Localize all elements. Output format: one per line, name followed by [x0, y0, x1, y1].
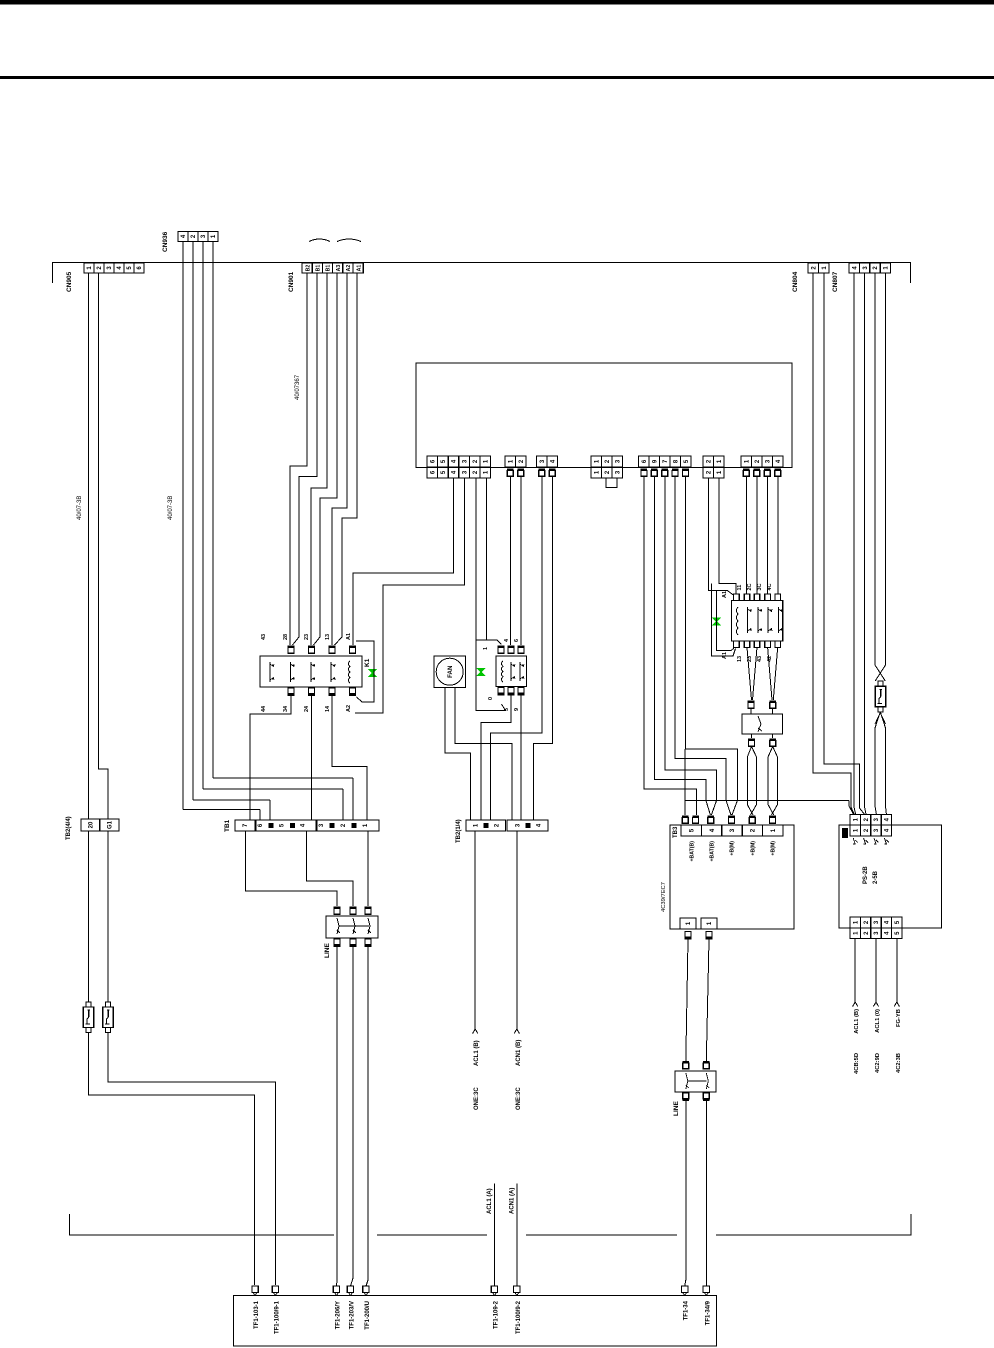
K3 pair converge 2 — [768, 647, 778, 700]
wire LINE-L1 to TF1-206 — [336, 947, 339, 1286]
TB2(1/4) link mark B — [526, 823, 531, 828]
TB3 top cell 2 — [742, 825, 762, 836]
connector CN905 pin 1 — [84, 263, 94, 273]
connector CN905 pin 3 — [104, 263, 114, 273]
svg-text:A1: A1 — [356, 265, 362, 272]
svg-text:13: 13 — [325, 634, 331, 640]
K1 bottom pin connector x352.5 — [349, 688, 356, 696]
TB2(1/4) box A — [466, 820, 506, 831]
wire split to TB3 pin 5a — [684, 749, 686, 815]
board CN5 pin 5 — [681, 456, 692, 467]
TB1 link mark b — [330, 823, 335, 828]
board CN4 upper pin 1 — [591, 456, 602, 467]
fuse F1 body — [875, 686, 885, 707]
top bus left bracket — [52, 262, 54, 283]
svg-text:TF1-103-1: TF1-103-1 — [254, 1300, 260, 1329]
PS top outer pin 4 — [881, 815, 891, 826]
PS bottom outer pin 1 — [850, 928, 860, 939]
svg-text:1: 1 — [853, 920, 859, 924]
K2 top pin connector x511 — [508, 646, 515, 654]
board CN1 upper pin 2 — [469, 456, 480, 467]
crimp board CN7-3 — [764, 469, 771, 477]
board CN2 pin 2 — [516, 456, 527, 467]
svg-text:ACN1 (A): ACN1 (A) — [510, 1188, 516, 1214]
svg-text:24: 24 — [304, 705, 310, 712]
board CN6 lower pin 1 — [714, 467, 725, 478]
main control board — [416, 363, 792, 468]
top bus right bracket — [910, 262, 912, 283]
LINE-R link bar — [688, 1080, 707, 1082]
svg-text:7: 7 — [663, 459, 669, 463]
svg-text:3C: 3C — [757, 583, 763, 590]
relay K3 body — [731, 601, 782, 641]
svg-text:4C2:9D: 4C2:9D — [875, 1053, 881, 1073]
wire board CN1-1 to K2 — [476, 478, 502, 645]
wire board CN5-3 staircase — [665, 477, 717, 816]
connector CN807 pin 1 — [880, 263, 890, 273]
svg-text:3: 3 — [863, 266, 869, 270]
crimp board CN5-2 — [651, 469, 658, 477]
PS corner mark — [842, 828, 848, 838]
wire TB2(1/4)-3 to ACN1(B) — [516, 831, 518, 1029]
crimp LINE-L bottom x353 — [350, 939, 357, 947]
bottom box pin TF1-100/9-2 — [514, 1286, 520, 1293]
svg-text:1: 1 — [483, 647, 489, 650]
wire TB2(4/4)-20 to fuse — [88, 831, 90, 1002]
TB2(4/4) cell 20 — [81, 819, 100, 831]
wire board CN7-2 to K3 — [756, 477, 758, 595]
crimp LINE-R bottom 2 — [703, 1093, 710, 1101]
K3 bottom pin x767.6 — [765, 641, 771, 648]
svg-text:3: 3 — [540, 459, 546, 463]
wire CN901-A1 to K1 — [342, 273, 357, 637]
K3 top pin x757 — [754, 594, 760, 601]
wire TB2(1/4)-1 to ACL1(B) — [474, 831, 476, 1029]
connector CN807 pin 3 — [859, 263, 869, 273]
wire CN905-1 to TB2(4/4) — [88, 273, 90, 819]
svg-text:2: 2 — [473, 470, 479, 474]
LINE filter right box — [675, 1071, 716, 1092]
crimp board CN5-4 — [672, 469, 679, 477]
svg-text:4: 4 — [117, 266, 123, 270]
crimp board CN7-4 — [775, 469, 782, 477]
svg-text:2-5B: 2-5B — [873, 870, 879, 884]
wire K1-24 to TB1 — [332, 696, 367, 820]
fuse F1 diverge X — [875, 712, 886, 728]
board CN4 upper pin 3 — [612, 456, 623, 467]
svg-text:1: 1 — [484, 459, 490, 463]
crimp LINE-L bottom x337 — [334, 939, 341, 947]
bottom box pin TF1-103-1 — [252, 1286, 258, 1293]
board CN4 upper pin 2 — [602, 456, 613, 467]
K1 top pin connector x352.5 — [349, 646, 356, 654]
svg-text:6: 6 — [514, 639, 520, 642]
K3 top pin x767.6 — [765, 594, 771, 601]
svg-text:4: 4 — [550, 459, 556, 463]
wire ACN1(A) — [516, 1184, 518, 1287]
fuse F1 crimp top — [878, 681, 883, 686]
board CN1 lower pin 1 — [480, 467, 491, 478]
twisted pair arc 1 — [309, 239, 330, 242]
svg-text:2: 2 — [706, 459, 712, 463]
svg-text:1: 1 — [853, 828, 859, 832]
crimp board CN5-5 — [682, 469, 689, 477]
connector CN936 pin 2 — [188, 232, 198, 242]
svg-text:2: 2 — [191, 234, 197, 238]
svg-text:5: 5 — [504, 708, 510, 711]
svg-text:3: 3 — [201, 234, 207, 238]
K1 top pin connector x332 — [329, 646, 336, 654]
green mark K2 — [478, 668, 485, 676]
svg-text:+B(M): +B(M) — [771, 841, 777, 856]
wire board CN5-5 staircase — [686, 477, 738, 816]
PS top inner pin 4 — [881, 825, 891, 836]
svg-text:2: 2 — [706, 470, 712, 474]
svg-text:4: 4 — [301, 823, 307, 827]
K3 top pin x736.4 — [734, 594, 740, 601]
svg-text:2: 2 — [494, 823, 500, 827]
connector CN901 pin A3 — [333, 263, 343, 273]
svg-text:2: 2 — [811, 266, 817, 270]
svg-text:CN807: CN807 — [832, 271, 839, 292]
PS top outer pin 1 — [850, 815, 860, 826]
fan circle — [436, 658, 463, 685]
svg-text:28: 28 — [283, 634, 289, 640]
svg-text:ACL1 (B): ACL1 (B) — [854, 1009, 860, 1034]
TB3 top cell 5 — [681, 825, 701, 836]
svg-text:TF1-34/9: TF1-34/9 — [705, 1300, 711, 1325]
crimp LINE-L top x337 — [334, 907, 341, 915]
TB1 group B box — [317, 820, 379, 831]
board CN1 upper pin 6 — [427, 456, 438, 467]
board CN6 lower pin 2 — [703, 467, 714, 478]
wire board CN7-1 to K3 — [745, 477, 747, 595]
svg-text:CN804: CN804 — [792, 271, 799, 292]
svg-text:5: 5 — [684, 459, 690, 463]
wire board CN2-2 to K2 — [520, 477, 522, 646]
K3 top pin x747 — [744, 594, 750, 601]
svg-text:LINE: LINE — [324, 943, 331, 958]
svg-text:6: 6 — [431, 470, 437, 474]
board CN7 pin 1 — [741, 456, 752, 467]
svg-text:34: 34 — [283, 705, 289, 712]
board CN5 pin 9 — [649, 456, 660, 467]
K3 top pin x777.7 — [775, 594, 781, 601]
PS pin switch 4 — [884, 838, 889, 844]
title bar — [0, 0, 994, 5]
svg-text:2: 2 — [341, 823, 347, 827]
wire CN807-3 down — [865, 273, 867, 815]
board CN1 lower pin 6 — [427, 467, 438, 478]
wire CN901-B1a to K1 — [299, 273, 317, 637]
overload relay box — [742, 714, 783, 734]
wire CN804-1 to PS block — [824, 273, 865, 815]
crimp LINE-R bottom 1 — [683, 1093, 690, 1101]
wire CN936-1 down — [212, 242, 214, 779]
svg-text:44: 44 — [261, 705, 267, 712]
board CN5 pin 7 — [660, 456, 671, 467]
svg-text:2: 2 — [864, 817, 870, 821]
svg-text:5: 5 — [895, 920, 901, 924]
K1 top pin connector x291 — [288, 646, 295, 654]
LINE-L sw2 — [353, 918, 356, 934]
svg-text:TF1-203/V: TF1-203/V — [350, 1301, 356, 1329]
connector CN901 pin B2 — [302, 263, 312, 273]
svg-text:4: 4 — [885, 931, 891, 935]
svg-text:6: 6 — [137, 266, 143, 270]
arrow PS-5 — [894, 1002, 899, 1007]
svg-text:0: 0 — [488, 697, 494, 700]
svg-text:1: 1 — [853, 817, 859, 821]
wire CN901-A2 to K1 — [332, 273, 347, 638]
svg-text:1: 1 — [508, 459, 514, 463]
LINE-L sw3 — [368, 918, 371, 934]
svg-text:1: 1 — [707, 921, 713, 925]
wire TB1-- to LINE filter — [367, 831, 369, 906]
svg-text:CN936: CN936 — [162, 231, 169, 252]
svg-text:3: 3 — [319, 823, 325, 827]
svg-text:ACL1 (A): ACL1 (A) — [487, 1188, 493, 1214]
wire CN901-B1b to K1 — [311, 273, 327, 638]
board CN5 pin 6 — [639, 456, 650, 467]
arrow ACN1(B) — [514, 1029, 519, 1034]
connector CN901 pin A1 — [353, 263, 363, 273]
LINE filter left box — [326, 916, 378, 938]
K3 bottom pin x747 — [744, 641, 750, 648]
svg-text:2: 2 — [605, 459, 611, 463]
svg-text:11: 11 — [737, 585, 743, 591]
svg-text:1: 1 — [822, 266, 828, 270]
wire TB3-1a to LINE-R — [686, 940, 688, 1062]
svg-text:4: 4 — [776, 459, 782, 463]
K3 coil loop outer — [712, 584, 736, 656]
svg-text:3: 3 — [615, 459, 621, 463]
TB3 top cell 4 — [701, 825, 721, 836]
wire CN804-2 to PS block — [813, 273, 855, 815]
svg-text:5: 5 — [895, 931, 901, 935]
relay K3 contact 1 — [748, 607, 752, 633]
wire PS-3 down — [875, 939, 877, 1003]
crimp LINE-L bottom x368 — [365, 939, 372, 947]
K2 bottom pin connector x501 — [498, 688, 505, 696]
svg-text:2: 2 — [864, 828, 870, 832]
K1 bottom pin connector x291 — [288, 688, 295, 696]
K3 coil loop inner — [717, 590, 734, 650]
svg-text:LINE: LINE — [673, 1101, 680, 1116]
wire board CN2-1 to K2 — [509, 477, 511, 646]
board CN1 lower pin 4 — [448, 467, 459, 478]
relay K1 body — [260, 656, 362, 687]
crimp LINE-L top x368 — [365, 907, 372, 915]
svg-text:+B(M): +B(M) — [751, 841, 757, 856]
svg-text:40/07-3B: 40/07-3B — [77, 496, 83, 520]
wire CN901-A3 to K1 — [320, 273, 337, 637]
PS top inner pin 1 — [850, 825, 860, 836]
relay K1 contact 4 — [331, 662, 335, 682]
PS bottom inner pin 1 — [850, 917, 860, 928]
wire board CN3-3 to TB2(1/4) — [491, 477, 542, 821]
wire bend into PS pin 1 — [849, 801, 854, 815]
wire into overload relay right — [772, 709, 774, 715]
fan module box — [434, 656, 466, 688]
svg-text:A2: A2 — [346, 705, 352, 712]
relay K1 contact 1 — [270, 662, 274, 682]
board CN1 lower pin 3 — [459, 467, 470, 478]
svg-text:1: 1 — [473, 823, 479, 827]
arrow ACL1(B) — [473, 1029, 478, 1034]
svg-text:+BAT(B): +BAT(B) — [710, 841, 716, 862]
svg-text:ACL1 (B): ACL1 (B) — [474, 1040, 480, 1066]
relay K2 body — [496, 656, 527, 687]
PS bottom outer pin 5 — [892, 928, 902, 939]
svg-text:2: 2 — [605, 470, 611, 474]
svg-text:1: 1 — [770, 828, 777, 832]
crimp LINE-R top 2 — [703, 1061, 710, 1069]
wire CN936-3 down — [202, 242, 204, 790]
relay K2 contact 1 — [511, 662, 515, 681]
board CN7 pin 2 — [752, 456, 763, 467]
wire TB1-2 to LINE filter — [307, 831, 353, 906]
svg-text:ONE:3C: ONE:3C — [474, 1087, 480, 1110]
top bus wire — [52, 262, 911, 264]
svg-text:1: 1 — [744, 459, 750, 463]
K1 bottom pin connector x332 — [329, 688, 336, 696]
overload relay symbol — [758, 716, 762, 732]
svg-text:40/07367: 40/07367 — [295, 374, 301, 400]
board CN1 upper pin 3 — [459, 456, 470, 467]
board CN1 upper pin 4 — [448, 456, 459, 467]
svg-text:8: 8 — [673, 459, 679, 463]
relay K3 coil — [736, 607, 738, 635]
svg-text:4: 4 — [885, 920, 891, 924]
TB3 bottom cell 1b — [701, 918, 717, 929]
wire TB2(4/4)-G to fuse — [107, 831, 109, 1002]
wire out overload relay left — [751, 734, 753, 738]
PS pin switch 1 — [853, 838, 858, 844]
svg-text:3: 3 — [874, 817, 880, 821]
board CN5 pin 8 — [670, 456, 681, 467]
PS top inner pin 3 — [871, 825, 881, 836]
board CN1 lower pin 5 — [438, 467, 449, 478]
wire into overload relay left — [750, 709, 752, 715]
relay K3 contact 4 — [778, 607, 782, 633]
svg-text:TB3: TB3 — [673, 826, 679, 838]
crimp TB3 bottom 2 — [706, 932, 713, 940]
svg-text:6: 6 — [431, 459, 437, 463]
LINE-R sw1 — [686, 1073, 689, 1089]
svg-text:20: 20 — [88, 821, 94, 828]
wire TB3-1b to LINE-R — [706, 940, 709, 1062]
wire board CN3-4 to TB2(1/4) — [534, 477, 553, 821]
svg-text:14: 14 — [325, 705, 331, 712]
board CN6 upper pin 1 — [714, 456, 725, 467]
K3 pair converge 1 — [747, 647, 757, 700]
K2 top pin connector x521 — [518, 646, 525, 654]
bottom box pin TF1-203/V — [347, 1286, 353, 1293]
crimp below overload right — [769, 739, 776, 747]
crimp below overload left — [748, 739, 755, 747]
svg-text:CN905: CN905 — [66, 271, 73, 292]
svg-text:1: 1 — [484, 470, 490, 474]
crimp board CN5-3 — [661, 469, 668, 477]
svg-text:2: 2 — [864, 920, 870, 924]
crimp pair 1 upper — [748, 701, 755, 709]
wire board CN6-2 to K3 — [708, 478, 734, 596]
board CN4 lower pin 2 — [602, 467, 613, 478]
svg-text:1: 1 — [594, 459, 600, 463]
svg-text:+BAT(B): +BAT(B) — [690, 841, 696, 862]
wire fuse to PS cell3 — [875, 728, 877, 815]
svg-text:1: 1 — [211, 234, 217, 238]
header rule — [0, 76, 994, 79]
K3 bottom pin x777.7 — [775, 641, 781, 648]
svg-text:1: 1 — [686, 921, 692, 925]
wire FAN-2 to TB2(1/4) — [455, 688, 512, 821]
wire LINE-R1 to TF1-34 — [685, 1101, 686, 1286]
svg-text:43: 43 — [757, 656, 763, 662]
wire board CN7-4 to K3 — [777, 477, 779, 595]
svg-text:2C: 2C — [747, 583, 753, 590]
PS bottom inner pin 4 — [881, 917, 891, 928]
crimp board CN7-1 — [743, 469, 750, 477]
svg-text:B1: B1 — [326, 265, 332, 272]
crimp board CN7-2 — [754, 469, 761, 477]
svg-text:4: 4 — [885, 828, 891, 832]
svg-text:40/07-3B: 40/07-3B — [168, 496, 174, 520]
crimp TB3 top x685.2 — [682, 816, 689, 824]
svg-text:4: 4 — [709, 828, 716, 832]
TB1 link mark — [290, 823, 295, 828]
svg-text:PS-2B: PS-2B — [863, 866, 869, 884]
svg-text:TF1-34: TF1-34 — [684, 1300, 690, 1320]
long diamond to TB3-2 — [747, 747, 756, 816]
svg-text:4: 4 — [181, 234, 187, 238]
svg-text:1: 1 — [884, 266, 890, 270]
wire CN936-2 down — [192, 242, 194, 801]
svg-text:4: 4 — [504, 638, 510, 642]
svg-text:2: 2 — [873, 266, 879, 270]
wire K2-5 to TB2(1/4) — [481, 696, 511, 821]
PS bottom inner pin 5 — [892, 917, 902, 928]
svg-text:TF1-200/U: TF1-200/U — [365, 1301, 371, 1330]
crimp TB3 top x731.5 — [728, 816, 735, 824]
svg-text:4C2:3B: 4C2:3B — [896, 1053, 902, 1073]
board CN3 pin 3 — [537, 456, 548, 467]
bottom box pin TF1-100/9-1 — [272, 1286, 278, 1293]
K3 bottom pin x736.4 — [734, 641, 740, 648]
wire K2-9 to TB2(1/4) — [520, 696, 522, 821]
svg-text:3: 3 — [765, 459, 771, 463]
connector CN804 pin 1 — [819, 263, 830, 273]
wire CN936-4 down — [182, 242, 184, 810]
PS pin switch 2 — [864, 838, 869, 844]
LINE-L link bar — [339, 925, 369, 927]
fuse F2 — [83, 1002, 94, 1033]
connector CN807 pin 2 — [870, 263, 880, 273]
svg-text:43: 43 — [261, 634, 267, 640]
svg-text:TB2(1/4): TB2(1/4) — [456, 819, 462, 843]
bottom box pin TF1-34 — [682, 1286, 688, 1293]
TB2(4/4) cell G1 — [100, 819, 119, 831]
TB1 cell 7 — [235, 820, 255, 831]
crimp TB3 top x752.3 — [749, 816, 756, 824]
svg-text:1: 1 — [717, 470, 723, 474]
K1 top pin connector x311.5 — [308, 646, 315, 654]
svg-text:3: 3 — [462, 459, 468, 463]
relay K3 contact 2 — [758, 607, 762, 633]
svg-text:5: 5 — [127, 266, 133, 270]
wire CN905-2 to TB2(4/4) — [99, 273, 109, 819]
